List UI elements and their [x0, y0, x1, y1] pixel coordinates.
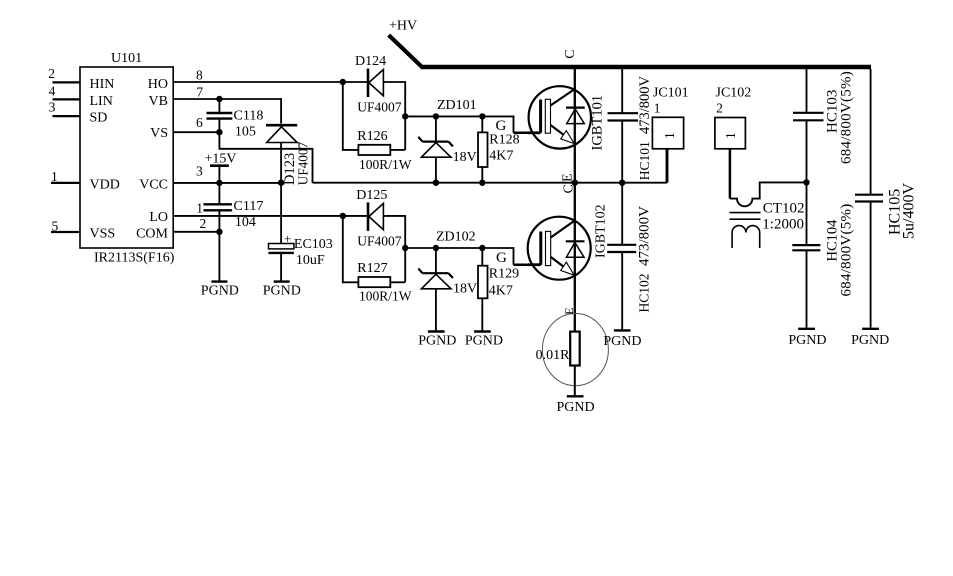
capacitor HC103: [793, 113, 824, 121]
wire C118 top stem: [218, 99, 220, 113]
wire HC102 stems: [621, 183, 623, 330]
pin label C IGBT101: [563, 49, 578, 58]
svg-text:PGND: PGND: [418, 334, 456, 349]
svg-text:5: 5: [52, 218, 59, 233]
JC101 inner pin 1 rotated: [662, 132, 677, 139]
wire gate line upper to IGBT101: [405, 116, 530, 132]
wire JC101 pin to rail: [666, 149, 669, 183]
svg-text:2: 2: [48, 66, 55, 81]
svg-text:R128: R128: [489, 133, 519, 148]
label IR2113S(F16): [94, 251, 175, 266]
wire VSS pin stub: [51, 231, 80, 233]
svg-text:473/800V: 473/800V: [637, 75, 653, 134]
label IGBT102 rotated: [594, 204, 609, 258]
capacitor HC101: [608, 113, 639, 120]
wire VS jog to mid rail: [219, 132, 312, 183]
svg-text:473/800V: 473/800V: [637, 206, 653, 266]
zener ZD101 18V: [418, 137, 453, 157]
label HC105 rotated: [887, 183, 918, 239]
capacitor C118: [207, 113, 233, 119]
label JC101 pin1: [653, 86, 689, 116]
ground label PGND (ZD102): [418, 334, 456, 349]
pin label G lower: [496, 250, 507, 266]
svg-text:4: 4: [49, 83, 56, 98]
pin label E IGBT102: [562, 307, 576, 314]
svg-text:PGND: PGND: [557, 400, 595, 415]
wire LIN pin stub: [53, 98, 81, 100]
svg-text:VCC: VCC: [139, 178, 168, 193]
wire IGBT102 collector vertical: [574, 183, 576, 332]
svg-text:1: 1: [662, 132, 677, 139]
svg-text:IR2113S(F16): IR2113S(F16): [94, 251, 175, 266]
wire shunt to PGND: [574, 366, 576, 396]
svg-text:UF4007: UF4007: [296, 142, 311, 186]
svg-text:+: +: [284, 231, 291, 246]
svg-text:D125: D125: [356, 188, 387, 203]
wire VB pin7 to D123 cathode: [173, 99, 281, 124]
wire HIN pin stub: [53, 81, 81, 83]
ground PGND under ZD102: [428, 330, 445, 332]
capacitor C117: [203, 204, 232, 210]
wire HC105 stems: [870, 69, 872, 328]
wire HC103 stems: [806, 69, 808, 182]
svg-text:ZD102: ZD102: [436, 230, 476, 245]
svg-text:C118: C118: [234, 109, 264, 124]
svg-text:C: C: [563, 49, 578, 58]
svg-text:PGND: PGND: [201, 284, 239, 299]
wire JC102 pin to CT102 primary: [729, 149, 732, 199]
label EC103 10uF: [284, 231, 333, 268]
diode D123 UF4007 bootstrap: [266, 125, 297, 142]
svg-text:VDD: VDD: [90, 178, 120, 193]
svg-text:100R/1W: 100R/1W: [359, 289, 412, 304]
svg-text:2: 2: [200, 216, 207, 231]
wire VDD pin stub: [51, 182, 80, 184]
label 0.01R: [536, 348, 571, 363]
wire R126 right: [390, 149, 405, 151]
wire R129 stems: [481, 248, 483, 331]
ground label PGND (HC104): [788, 333, 826, 348]
resistor R128: [478, 132, 488, 167]
wire COM down to PGND: [218, 232, 220, 281]
IC U101 IR2113S gate driver: [80, 67, 173, 248]
ground label PGND (HC102): [603, 334, 641, 349]
wire LO pin1 to node B: [173, 215, 367, 217]
svg-text:10uF: 10uF: [296, 253, 325, 268]
svg-text:R127: R127: [357, 261, 387, 276]
svg-text:VSS: VSS: [90, 227, 116, 242]
wire EC103 bottom stem: [280, 253, 282, 281]
svg-text:105: 105: [235, 125, 256, 140]
svg-text:JC101: JC101: [653, 86, 689, 101]
connector JC102: [715, 118, 746, 149]
capacitor HC105: [855, 195, 883, 202]
svg-text:8: 8: [196, 68, 203, 83]
resistor R129: [478, 266, 488, 299]
node junction dots: [216, 79, 810, 251]
transformer CT102 primary winding: [730, 182, 807, 206]
label HC101 473/800V rotated: [637, 75, 653, 180]
ground PGND under HC105: [862, 328, 879, 330]
connector JC101: [652, 117, 683, 149]
label HC104 rotated: [825, 204, 855, 297]
svg-text:C117: C117: [234, 199, 264, 214]
svg-text:R129: R129: [489, 267, 519, 282]
resistor 0.01R current shunt: [542, 314, 608, 386]
diode D124 UF4007: [368, 69, 383, 98]
pin label C IGBT102: [562, 184, 577, 193]
ground PGND under shunt: [567, 395, 584, 397]
wire node A down to R126 left: [343, 82, 359, 150]
ground label PGND (HC105): [851, 333, 889, 348]
ground label PGND (R129): [465, 334, 503, 349]
svg-text:PGND: PGND: [263, 284, 301, 299]
ground label PGND (shunt): [557, 400, 595, 415]
svg-text:IGBT101: IGBT101: [590, 95, 606, 151]
svg-text:G: G: [496, 118, 507, 134]
ground PGND under EC103: [274, 280, 290, 282]
U101 left pin numbers: [48, 66, 58, 233]
pin label G upper: [496, 118, 507, 134]
resistor R127: [358, 277, 390, 287]
label D124 UF4007: [355, 54, 402, 115]
svg-text:PGND: PGND: [603, 334, 641, 349]
wire R127 right: [390, 281, 405, 283]
svg-text:+HV: +HV: [389, 19, 417, 34]
svg-text:SD: SD: [90, 111, 108, 126]
label HC103 rotated: [825, 71, 855, 164]
svg-text:18V: 18V: [453, 282, 477, 297]
wire ZD102 bottom stem: [435, 289, 437, 331]
label R129 4K7: [489, 267, 519, 299]
svg-text:C: C: [562, 184, 577, 193]
svg-text:D124: D124: [355, 54, 386, 69]
label C117 104: [234, 199, 264, 230]
svg-text:PGND: PGND: [788, 333, 826, 348]
wire HC101 stems: [621, 69, 623, 183]
svg-text:1: 1: [723, 132, 738, 139]
label R128 4K7: [489, 133, 519, 164]
svg-text:7: 7: [196, 85, 203, 100]
label C118 105: [234, 109, 264, 140]
svg-text:3: 3: [196, 163, 203, 178]
wire D125 anode to node D: [383, 216, 405, 282]
svg-text:0.01R: 0.01R: [536, 348, 571, 363]
svg-text:UF4007: UF4007: [357, 234, 402, 249]
label R126 100R/1W: [357, 129, 411, 172]
wire COM pin2: [173, 231, 219, 233]
svg-text:3: 3: [49, 99, 56, 114]
wire ZD101 bottom stem: [435, 157, 437, 183]
wire SD pin stub: [53, 115, 81, 117]
wire R128 stems: [481, 116, 483, 182]
wire C118 bottom stem: [218, 119, 220, 133]
wire D124 anode to node C: [383, 82, 405, 150]
label D125 UF4007: [356, 188, 402, 249]
label U101: [111, 51, 142, 66]
svg-text:JC102: JC102: [716, 86, 752, 101]
svg-text:E: E: [561, 173, 576, 182]
ground PGND under COM: [211, 280, 227, 282]
wire gate line lower to IGBT102: [405, 248, 530, 265]
svg-text:IGBT102: IGBT102: [594, 204, 609, 258]
svg-text:HO: HO: [148, 77, 168, 92]
svg-text:684/800V(5%): 684/800V(5%): [839, 71, 855, 164]
capacitor EC103 electrolytic: [269, 244, 294, 253]
label JC102 pin2: [716, 86, 752, 116]
ground PGND under HC104: [798, 328, 815, 330]
wire HC104 stems: [806, 182, 808, 328]
label R127 100R/1W: [357, 261, 411, 304]
power +15V bar: [210, 164, 229, 167]
svg-text:100R/1W: 100R/1W: [359, 157, 412, 172]
net +HV label: [389, 19, 417, 34]
label ZD101 18V: [437, 98, 477, 165]
svg-text:UF4007: UF4007: [357, 100, 402, 115]
wire C117 top stem: [218, 183, 220, 204]
transformer CT102 core: [730, 213, 761, 220]
svg-text:PGND: PGND: [851, 333, 889, 348]
diode D125 UF4007: [368, 202, 383, 231]
ground label PGND (COM): [201, 284, 239, 299]
svg-text:HC101: HC101: [637, 141, 652, 180]
svg-text:1:2000: 1:2000: [762, 217, 804, 233]
zener ZD102 18V: [418, 269, 453, 289]
svg-text:18V: 18V: [453, 150, 477, 165]
label HC102 473/800V rotated: [637, 206, 653, 313]
svg-text:PGND: PGND: [465, 334, 503, 349]
wire ZD101 top stem: [435, 116, 437, 140]
U101 pin names: [90, 77, 169, 242]
label D123 UF4007 rotated: [282, 142, 311, 186]
svg-text:U101: U101: [111, 51, 142, 66]
U101 right pin numbers: [196, 68, 206, 232]
svg-text:COM: COM: [136, 227, 168, 242]
wire IGBT101 collector-emitter vertical: [574, 69, 576, 183]
JC102 inner pin 1 rotated: [723, 132, 738, 139]
svg-text:1: 1: [654, 100, 661, 115]
wire C117 bottom stem: [218, 210, 220, 232]
svg-text:684/800V(5%): 684/800V(5%): [839, 204, 855, 297]
svg-text:E: E: [562, 307, 576, 314]
ground PGND under R129: [474, 330, 491, 332]
wire ZD102 top stem: [435, 248, 437, 272]
capacitor HC102: [607, 245, 636, 252]
svg-text:104: 104: [235, 215, 256, 230]
svg-text:6: 6: [196, 115, 203, 130]
svg-text:2: 2: [716, 100, 723, 115]
svg-text:HIN: HIN: [90, 77, 115, 92]
wire HV bus: [421, 65, 872, 69]
svg-text:4K7: 4K7: [489, 284, 513, 299]
svg-text:1: 1: [51, 169, 58, 184]
svg-text:EC103: EC103: [294, 237, 333, 252]
svg-text:G: G: [496, 250, 507, 266]
label ZD102 18V: [436, 230, 477, 297]
label IGBT101 rotated: [590, 95, 606, 151]
svg-text:VB: VB: [149, 94, 168, 109]
transistor IGBT101: [528, 86, 591, 148]
transformer CT102 secondary winding: [732, 226, 760, 248]
svg-text:1: 1: [196, 201, 203, 216]
svg-text:+15V: +15V: [205, 152, 237, 167]
svg-text:CT102: CT102: [763, 201, 805, 217]
resistor R126: [358, 145, 390, 155]
svg-text:4K7: 4K7: [489, 149, 513, 164]
wire D123 anode to VCC: [280, 143, 282, 183]
transistor IGBT102: [528, 217, 591, 280]
ground label PGND (EC103): [263, 284, 301, 299]
net +15V label: [205, 152, 237, 167]
pin label E IGBT101: [561, 173, 576, 182]
svg-text:LO: LO: [149, 210, 168, 225]
svg-text:HC102: HC102: [637, 273, 652, 312]
wire +15V stem: [218, 166, 220, 183]
label CT102 1:2000: [762, 201, 804, 233]
wire +HV feed diagonal: [389, 35, 422, 67]
wire VS pin6: [173, 131, 219, 133]
wire HO pin8 to node A: [173, 81, 367, 83]
wire VS / E mid rail: [313, 182, 668, 184]
wire VCC pin3: [173, 182, 281, 184]
wire EC103 top stem: [280, 183, 282, 244]
capacitor HC104: [792, 245, 820, 250]
svg-text:LIN: LIN: [90, 94, 113, 109]
svg-text:ZD101: ZD101: [437, 98, 477, 113]
svg-text:5u/400V: 5u/400V: [901, 183, 918, 239]
wire node B down to R127 left: [343, 216, 359, 282]
svg-text:VS: VS: [150, 126, 168, 141]
svg-text:R126: R126: [357, 129, 387, 144]
ground PGND under HC102: [614, 329, 631, 331]
